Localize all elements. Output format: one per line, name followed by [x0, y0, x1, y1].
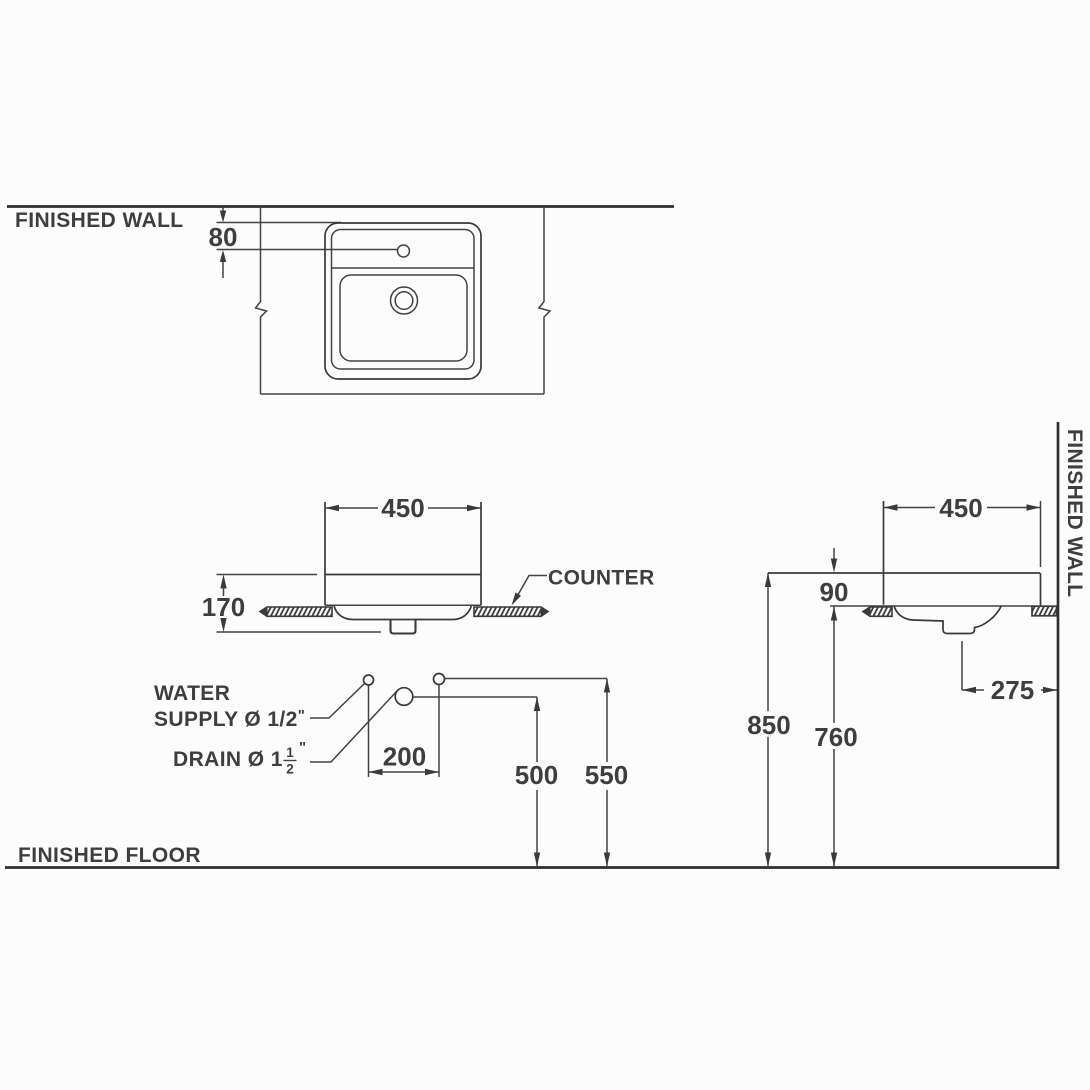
- svg-text:2: 2: [286, 762, 294, 777]
- dim 170 vertical + arrows: [220, 575, 226, 589]
- svg-text:450: 450: [381, 493, 424, 523]
- second point circle: [434, 674, 445, 685]
- dim 275: [962, 689, 984, 691]
- svg-text:1: 1: [286, 745, 294, 760]
- svg-text:SUPPLY Ø 1/2": SUPPLY Ø 1/2": [154, 707, 305, 731]
- drain point circle: [395, 688, 413, 706]
- counter bottom edge: [261, 393, 545, 395]
- svg-text:850: 850: [747, 710, 790, 740]
- basin (plan): [340, 275, 467, 361]
- dim 500 vertical: [536, 697, 538, 762]
- sink right edge (side): [1040, 573, 1042, 606]
- connector drain to 500: [413, 696, 537, 698]
- svg-text:450: 450: [939, 493, 982, 523]
- sink rim at counter level: [325, 604, 481, 606]
- bowl underside (side): [894, 606, 1002, 634]
- svg-text:WATER: WATER: [154, 682, 230, 705]
- dim 450 side: extension left / sink left edge: [883, 501, 885, 605]
- counter left edge with break: [256, 207, 267, 395]
- dim 550 vertical: [606, 679, 608, 763]
- svg-text:275: 275: [991, 675, 1034, 705]
- svg-text:": ": [299, 739, 306, 756]
- svg-text:FINISHED WALL: FINISHED WALL: [1063, 429, 1086, 598]
- stacked fraction 1/2: [284, 739, 307, 777]
- connector water supply to 550: [445, 678, 607, 680]
- counter right edge with break: [539, 207, 550, 395]
- dim 450 extension right / sink right edge: [480, 502, 482, 605]
- water supply leader: [310, 684, 365, 719]
- COUNTER leader: [515, 576, 548, 602]
- counter hatch bar right: [474, 607, 548, 616]
- dim 80 lower arrow (up): [220, 250, 226, 262]
- drain line (side): [961, 641, 963, 690]
- dim 80 line to faucet hole: [217, 249, 398, 251]
- dim 450 side: extension right: [1040, 501, 1042, 567]
- drain stub (front): [391, 620, 416, 634]
- dim 200 right extension: [438, 685, 440, 777]
- sink inner rim (plan): [332, 230, 475, 370]
- sink top edge (front): [325, 574, 481, 576]
- sink top line / 850 tick: [768, 572, 1040, 574]
- finished wall line (right): [1057, 422, 1060, 869]
- dim 80 upper arrow (down): [222, 208, 224, 213]
- water supply point circle: [364, 675, 374, 685]
- finished floor line: [5, 866, 1058, 869]
- drain outer circle: [391, 287, 418, 314]
- counter hatch bar left: [260, 607, 332, 616]
- svg-text:FINISHED FLOOR: FINISHED FLOOR: [18, 844, 201, 867]
- dim 200 left extension: [368, 686, 370, 778]
- dim 450 side line: [884, 507, 936, 509]
- svg-text:550: 550: [585, 760, 628, 790]
- drain leader: [310, 692, 397, 763]
- svg-text:COUNTER: COUNTER: [548, 567, 655, 590]
- counter hatch right (side): [1032, 606, 1057, 616]
- dim 850 vertical: [767, 573, 769, 711]
- dim 200 line + arrows: [369, 771, 440, 773]
- sink outer rim (plan): [325, 223, 481, 379]
- svg-text:80: 80: [209, 222, 238, 252]
- svg-text:500: 500: [515, 760, 558, 790]
- dim 80 line to sink edge: [217, 222, 342, 224]
- counter hatch left (side): [863, 607, 892, 616]
- dim 760 vertical: [833, 607, 835, 724]
- faucet hole: [398, 245, 410, 257]
- drain inner circle: [395, 292, 413, 310]
- finished wall line (top): [7, 205, 674, 208]
- dim 450 line: [325, 507, 378, 509]
- dim 170 top tick: [217, 574, 318, 576]
- dim 450 extension left / sink left edge: [324, 502, 326, 605]
- counter line (side): [830, 605, 1035, 607]
- svg-text:170: 170: [202, 592, 245, 622]
- deck divider line: [332, 267, 475, 269]
- dim 170 bottom tick: [217, 631, 382, 633]
- svg-text:90: 90: [820, 577, 849, 607]
- dim 90 upper arrow: [833, 548, 835, 560]
- svg-text:DRAIN Ø 1: DRAIN Ø 1: [173, 748, 283, 771]
- svg-text:760: 760: [814, 722, 857, 752]
- svg-text:FINISHED WALL: FINISHED WALL: [15, 209, 184, 232]
- bowl underside (front): [334, 606, 472, 620]
- svg-text:200: 200: [383, 742, 426, 772]
